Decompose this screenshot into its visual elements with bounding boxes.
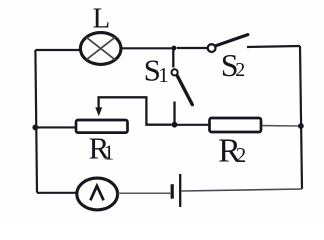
svg-text:1: 1 [158, 63, 169, 87]
node left junction [32, 125, 38, 131]
battery long plate [179, 174, 181, 207]
svg-text:2: 2 [235, 59, 245, 81]
wire S2 to top-right corner [247, 46, 300, 47]
rheostat wiper arrowhead [95, 107, 102, 116]
wire top-left segment [35, 49, 81, 51]
wire R2 left lead [175, 124, 210, 126]
resistor R1 rheostat [76, 120, 128, 133]
ammeter A [77, 178, 118, 210]
wire wiper path [99, 97, 172, 124]
node top junction [172, 46, 177, 51]
resistor R2 [210, 118, 262, 132]
node S1 bottom junction [172, 122, 178, 128]
svg-text:L: L [93, 3, 111, 35]
wire lamp to top junction [121, 47, 174, 49]
svg-text:1: 1 [104, 141, 115, 165]
battery short plate [171, 184, 174, 199]
wire battery to bottom-right corner [182, 189, 303, 191]
wire bottom-left segment [37, 192, 77, 194]
lamp L [80, 33, 121, 65]
node right junction [298, 123, 304, 129]
wire junction to S2 [177, 47, 208, 49]
switch S1 [172, 48, 193, 125]
switch S2 [208, 35, 248, 52]
svg-text:2: 2 [236, 143, 247, 167]
wire ammeter to battery [118, 192, 171, 194]
wire R1 left lead [35, 126, 76, 128]
wire right vertical [300, 46, 302, 189]
wire R2 right lead [261, 125, 298, 127]
wire left vertical [35, 50, 37, 193]
